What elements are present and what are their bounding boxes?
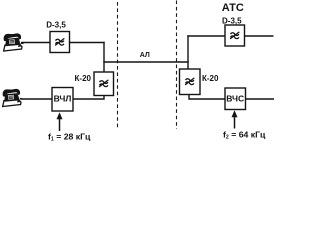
dashed boundary line (right) [176,1,178,130]
filter K-20 (right), box [180,69,201,95]
wire: top phone to filter D-3,5 [21,42,50,44]
wire: bottom phone to VChL [21,98,52,100]
filter wave symbol (left D-3,5) [55,38,64,45]
filter wave symbol (left K-20) [99,80,108,87]
wire: left K-20 bottom to VChL wire [73,96,104,100]
svg-text:D-3,5: D-3,5 [46,21,66,30]
svg-text:D-3,5: D-3,5 [222,17,242,26]
wire: left D-3,5 output to line junction [70,42,105,44]
wire: left vertical bus [103,42,105,72]
wire: right D-3,5 output [245,35,274,37]
telephone set (bottom left subscriber) [1,88,22,106]
arrow: carrier frequency into VChL [59,117,61,131]
wire: VChS output [246,98,275,100]
filter K-20 (left), box [94,72,114,96]
svg-text:ВЧЛ: ВЧЛ [54,94,72,104]
wire: subscriber line AL [103,61,188,63]
filter wave symbol (right K-20) [185,78,194,85]
dashed boundary line (left) [117,2,119,128]
block VChL box [52,88,73,112]
block VChS box [225,88,246,110]
wire: right vertical bus [187,35,189,69]
svg-text:f2 = 64 кГц: f2 = 64 кГц [223,129,266,140]
filter D-3,5 (left), box [50,32,70,53]
svg-text:К-20: К-20 [202,74,219,83]
svg-text:ВЧС: ВЧС [226,94,244,104]
wire: right bus to right D-3,5 [187,35,225,37]
telephone set (top left subscriber) [2,33,23,51]
svg-text:АТС: АТС [222,2,244,14]
filter wave symbol (right D-3,5) [230,32,239,39]
wire: right K-20 bottom to VChS wire [189,95,225,100]
svg-text:К-20: К-20 [75,74,92,83]
svg-text:f1 = 28 кГц: f1 = 28 кГц [48,131,91,142]
arrow: carrier frequency into VChS [234,115,236,129]
filter D-3,5 (right), box [225,25,245,46]
svg-text:АЛ: АЛ [140,52,150,59]
